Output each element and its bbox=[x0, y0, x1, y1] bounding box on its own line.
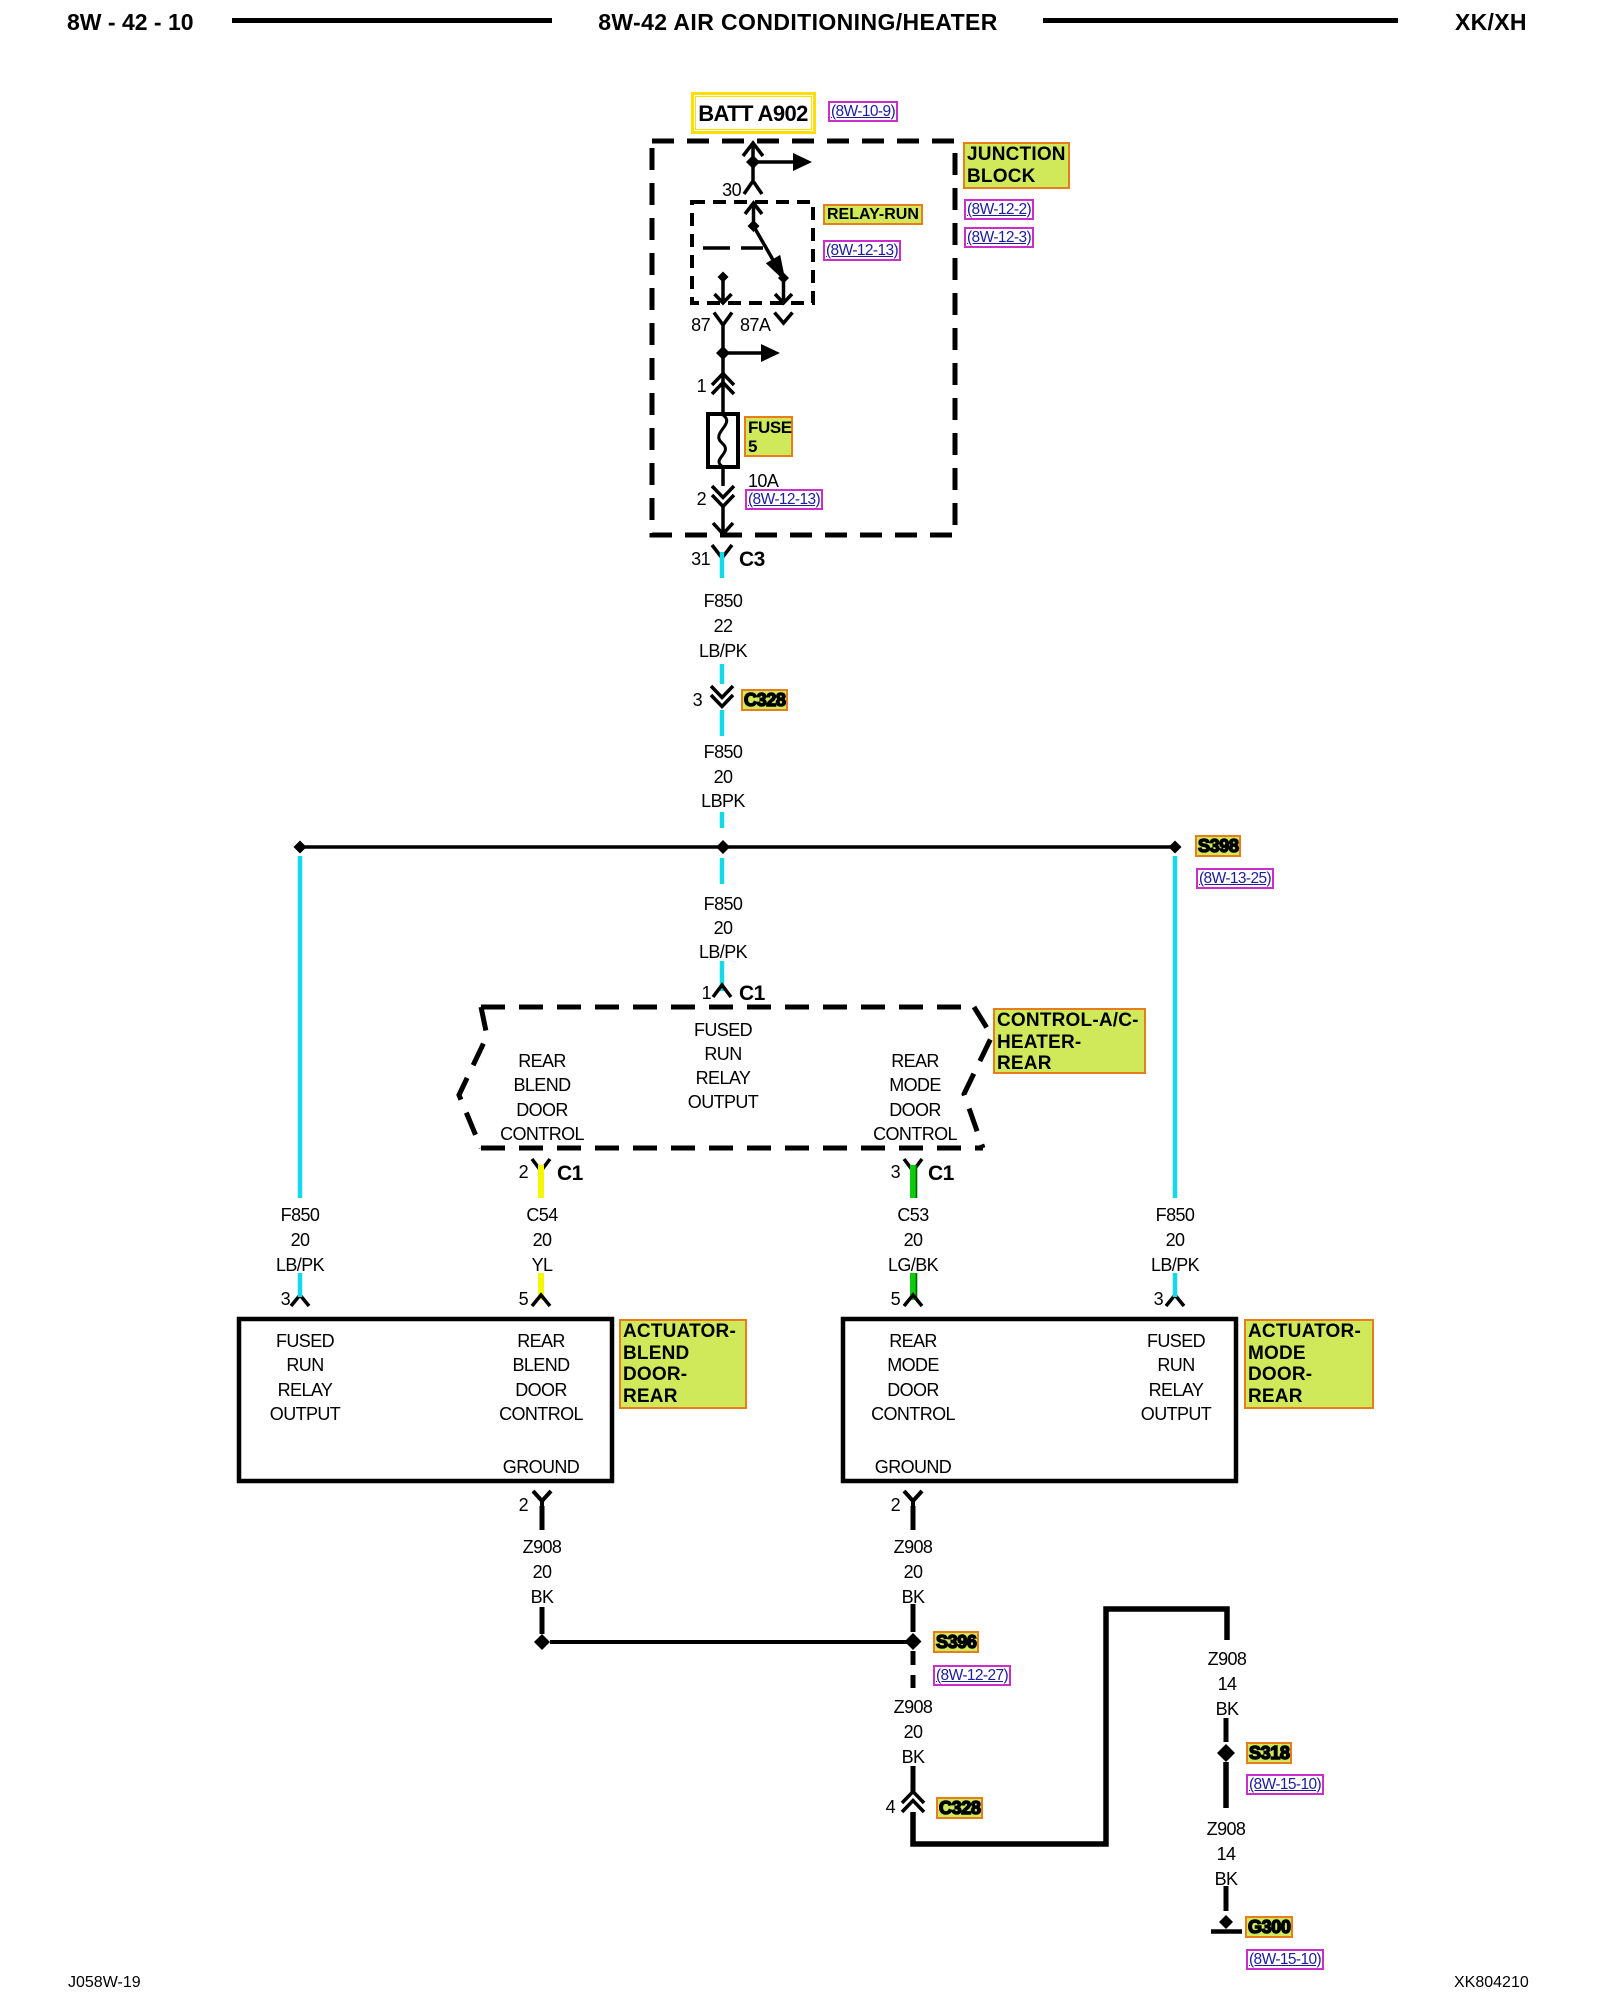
pin 87A label bbox=[740, 316, 770, 334]
wire F850 (cyan) left branch down bbox=[298, 856, 303, 1198]
right actuator box text: fused run relay output bbox=[1147, 1332, 1205, 1350]
link 8W-12-3 bbox=[964, 227, 1034, 248]
wire C53 (light green) bottom segment bbox=[913, 1273, 917, 1300]
wire F850 20 LBPK (cyan) below C328 bbox=[720, 710, 725, 736]
header right code bbox=[1455, 11, 1527, 34]
wire Z908 left dash above junction bbox=[540, 1607, 545, 1634]
right actuator ground pin text bbox=[875, 1458, 951, 1476]
fuse FUSE 5 (10A) bbox=[708, 414, 738, 467]
relay RELAY-RUN dashed box bbox=[692, 202, 813, 303]
pin 3 (left actuator) bbox=[281, 1290, 290, 1308]
actuator mode door rear box bbox=[843, 1319, 1236, 1481]
wire label Z908 20 BK (left) bbox=[523, 1538, 562, 1556]
wire Z908 14 BK below S318 bbox=[1223, 1762, 1229, 1808]
right actuator box text: rear mode door control bbox=[889, 1332, 937, 1350]
splice S398 bbox=[1195, 835, 1241, 857]
link 8W-12-13 (relay) bbox=[823, 240, 901, 261]
wire Z908 C328 down, right, and up to Z908 14 run bbox=[913, 1609, 1227, 1844]
wire label Z908 20 BK (right) bbox=[894, 1538, 933, 1556]
in-line connector C328 pin 3 (double chevron down) bbox=[711, 686, 733, 707]
actuator mode door label bbox=[1244, 1319, 1374, 1409]
wire label Z908 14 BK (lower right) bbox=[1207, 1820, 1246, 1838]
wire label F850 20 LB/PK (far left) bbox=[281, 1206, 320, 1224]
pin 3 (right actuator) bbox=[1154, 1290, 1163, 1308]
node center branch bbox=[716, 840, 730, 854]
connector pin 5 half (^) right actuator bbox=[904, 1295, 922, 1306]
wire F850 (cyan) center below bus bbox=[720, 858, 725, 884]
fuse value 10A bbox=[748, 472, 778, 490]
in-line connector pin 1 (double chevron up) bbox=[712, 374, 734, 395]
fuse label FUSE 5 bbox=[744, 416, 793, 457]
pin 2 label (left actuator bottom) bbox=[519, 1496, 528, 1514]
connector pin 2 (Y) below right actuator bbox=[904, 1491, 922, 1508]
connector C1 pin 1 half (^) bbox=[713, 985, 731, 997]
ground G300 label bbox=[1245, 1916, 1293, 1938]
wire label Z908 14 BK (upper right) bbox=[1208, 1650, 1247, 1668]
node battery feed junction bbox=[746, 155, 760, 169]
in-line connector C328 pin 4 (double chevron up) bbox=[902, 1792, 924, 1813]
pin 1 label bbox=[697, 377, 706, 395]
junction block dashed border bbox=[652, 141, 955, 535]
wire F850 (cyan) far right short segment bbox=[1173, 1273, 1178, 1297]
control pin function: fused run relay output bbox=[694, 1021, 752, 1039]
pin 30 label bbox=[722, 181, 741, 199]
connector pin 5 half (^) left actuator bbox=[532, 1295, 550, 1306]
pin 3 label (C328) bbox=[693, 691, 702, 709]
pin 3 label (C1 right) bbox=[891, 1163, 900, 1181]
node run relay output junction bbox=[716, 346, 730, 360]
control unit label CONTROL-A/C-HEATER-REAR bbox=[993, 1008, 1146, 1074]
splice S396 bbox=[933, 1631, 979, 1653]
connector name C3 bbox=[739, 549, 765, 570]
wire C54 (yellow) bottom segment bbox=[538, 1273, 544, 1300]
connector C1 pin 3 (Y) bbox=[904, 1159, 922, 1171]
connector name C328 bbox=[741, 689, 788, 711]
wire F850 (cyan) short dash above bus bbox=[720, 812, 725, 828]
pin 4 label (C328 bottom) bbox=[886, 1798, 895, 1816]
wire pin 87 down to fuse bbox=[721, 325, 725, 414]
wire label F850 20 LBPK bbox=[704, 743, 743, 761]
ground bus wire left to S396 bbox=[550, 1640, 913, 1644]
wire F850 (cyan) center above C1 bbox=[720, 961, 725, 991]
pin 31 label bbox=[691, 550, 710, 568]
wire Z908 14 BK above ground bbox=[1224, 1886, 1229, 1911]
relay pin 30 internal arrow bbox=[745, 203, 762, 226]
link 8W-12-27 bbox=[933, 1665, 1011, 1686]
wire label F850 20 LB/PK (far right) bbox=[1156, 1206, 1195, 1224]
bus wire to splice S398 bbox=[300, 845, 1175, 849]
connector name C1 bbox=[739, 983, 765, 1004]
wire F850 (cyan) right branch down bbox=[1173, 856, 1178, 1198]
connector C3 pin 31 (Y) bbox=[712, 545, 732, 558]
left actuator box text: fused run relay output bbox=[276, 1332, 334, 1350]
wire Z908 20 BK left top segment bbox=[540, 1506, 545, 1530]
header left page number bbox=[67, 11, 194, 34]
connector name C1 (right) bbox=[928, 1163, 954, 1184]
wire arrow to other circuits (top) bbox=[753, 153, 812, 171]
wire label Z908 20 BK (below S396) bbox=[894, 1698, 933, 1716]
node ground junction left bbox=[534, 1634, 550, 1650]
wire F850 (cyan) far left short segment bbox=[298, 1273, 303, 1297]
link 8W-12-2 bbox=[964, 199, 1034, 220]
footer right bbox=[1454, 1975, 1529, 1991]
header rule right bbox=[1043, 18, 1398, 23]
wire label F850 22 LB/PK bbox=[704, 592, 743, 610]
wire batt to pin 30 bbox=[743, 143, 763, 180]
wire Z908 14 BK dash above S318 bbox=[1224, 1718, 1229, 1742]
wire label C54 20 YL bbox=[526, 1206, 557, 1224]
actuator blend door label bbox=[619, 1319, 747, 1409]
relay common node bbox=[748, 220, 760, 232]
pin 87A connector half (V) bbox=[775, 313, 793, 324]
pin 2 label (C1 left) bbox=[519, 1163, 528, 1181]
wire Z908 above C328 pin 4 bbox=[911, 1766, 916, 1792]
connector pin 2 (Y) below left actuator bbox=[533, 1491, 551, 1508]
left actuator box text: rear blend door control bbox=[517, 1332, 565, 1350]
node left branch bbox=[294, 841, 307, 854]
relay label RELAY-RUN bbox=[823, 204, 923, 225]
node splice S398 bbox=[1169, 841, 1182, 854]
in-line connector pin 2 (double chevron down) bbox=[712, 486, 734, 507]
pin 2 label bbox=[697, 490, 706, 508]
link 8W-15-10 (S318) bbox=[1246, 1774, 1324, 1795]
connector name C1 (left) bbox=[557, 1163, 583, 1184]
relay switch blade to 87A bbox=[754, 226, 785, 279]
wire C53 (light green) top segment bbox=[913, 1165, 917, 1198]
splice S318 bbox=[1246, 1742, 1292, 1764]
wire F850 (cyan) label to C328 bbox=[720, 664, 725, 684]
header rule left bbox=[232, 18, 552, 23]
connector pin 3 half (^) far left bbox=[291, 1295, 309, 1306]
relay pin 87 node and exit arrow bbox=[718, 272, 729, 283]
control pin function: rear blend door control bbox=[518, 1052, 566, 1070]
battery feed BATT A902 box bbox=[691, 92, 816, 134]
pin 2 label (right actuator bottom) bbox=[891, 1496, 900, 1514]
control pin function: rear mode door control bbox=[891, 1052, 939, 1070]
wire label F850 20 LB/PK (center) bbox=[704, 895, 743, 913]
footer left bbox=[68, 1975, 141, 1991]
wire fuse to junction block edge bbox=[713, 467, 733, 534]
ground G300 symbol bbox=[1211, 1915, 1242, 1932]
wire arrow to other circuits (middle) bbox=[723, 344, 780, 362]
node splice S318 bbox=[1217, 1744, 1235, 1762]
node splice S396 bbox=[905, 1633, 922, 1650]
left actuator ground pin text bbox=[503, 1458, 579, 1476]
pin 5 (left actuator) bbox=[519, 1290, 528, 1308]
wire label C53 20 LG/BK bbox=[897, 1206, 928, 1224]
control module dashed outline (partial box) bbox=[459, 1007, 992, 1148]
relay pin 87A node and exit arrow bbox=[778, 273, 789, 284]
link 8W-13-25 bbox=[1196, 868, 1274, 889]
pin 30 connector half bbox=[744, 181, 762, 194]
pin 87 label bbox=[691, 316, 710, 334]
actuator blend door rear box bbox=[239, 1319, 612, 1481]
wire Z908 right dash above S396 bbox=[911, 1604, 916, 1632]
link 8W-15-10 (G300) bbox=[1246, 1949, 1324, 1970]
junction block label bbox=[963, 142, 1070, 189]
wire F850 22 LB/PK (cyan) C3 to label bbox=[720, 552, 725, 578]
header title bbox=[598, 11, 998, 34]
connector pin 3 half (^) far right bbox=[1166, 1295, 1184, 1306]
wire C54 (yellow) top segment bbox=[538, 1165, 544, 1198]
pin 1 label (C1) bbox=[702, 984, 711, 1002]
wire Z908 dashes below S396 bbox=[911, 1651, 916, 1688]
pin 87 connector half (Y) bbox=[714, 313, 732, 326]
pin 5 (right actuator) bbox=[891, 1290, 900, 1308]
connector name C328 (bottom) bbox=[936, 1797, 983, 1819]
link 8W-12-13 (fuse) bbox=[745, 489, 823, 510]
connector C1 pin 2 (Y) bbox=[532, 1159, 550, 1171]
link 8W-10-9 bbox=[828, 101, 898, 122]
relay coil actuation dashed line bbox=[703, 246, 763, 250]
wire Z908 20 BK right top segment bbox=[911, 1506, 916, 1530]
